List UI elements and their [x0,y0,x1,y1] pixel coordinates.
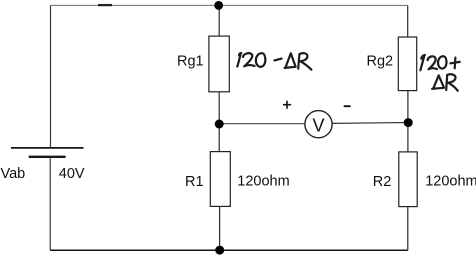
node mid-right junction [404,118,413,127]
wire voltmeter to right node [332,122,408,125]
wire top rail dark overlap segment [98,4,112,6]
wire Rg1 to mid node [218,92,220,124]
wire R1 to bottom node [219,206,221,250]
wire left rail upper [50,5,52,147]
resistor Rg2 [398,37,416,91]
handwritten value 120+dR for Rg2 [420,55,459,91]
wire right rail top [407,5,409,37]
battery V1 top plate [11,147,84,149]
wire R2 to bottom right corner [407,207,409,251]
polarity minus sign [345,105,350,107]
svg-text:120ohm: 120ohm [425,174,476,190]
svg-text:40V: 40V [59,166,85,182]
wire branch1 node to Rg1 [218,5,220,36]
svg-text:Rg1: Rg1 [177,53,204,69]
resistor R2 [399,152,417,207]
node mid-left junction [215,120,224,129]
wire top rail [51,4,408,6]
wire mid node to voltmeter [219,123,305,125]
wire mid node to R1 [218,124,220,152]
svg-text:120ohm: 120ohm [237,174,289,190]
wire left rail lower [49,157,51,250]
svg-text:V: V [312,115,324,135]
resistor R1 [210,152,230,207]
node bottom junction [215,246,224,255]
svg-text:Rg2: Rg2 [367,53,394,69]
wire bottom rail [50,249,408,251]
svg-text:R1: R1 [185,174,204,190]
voltmeter V [305,111,332,138]
svg-text:R2: R2 [373,174,392,190]
svg-text:Vab: Vab [1,166,26,182]
wire right node to R2 [407,123,409,152]
polarity plus sign [284,101,291,108]
wire Rg2 to right node [407,91,409,123]
node top junction [214,1,223,10]
handwritten value 120-dR for Rg1 [237,53,311,70]
resistor Rg1 [209,36,229,92]
battery V1 bottom plate [29,156,66,158]
